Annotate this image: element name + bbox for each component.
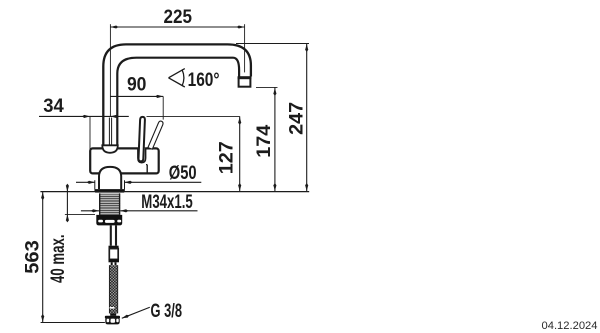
- braid hose left edge: [108, 265, 110, 313]
- inner riser lines inside pipe: [108, 118, 110, 145]
- countertop reference line: [40, 191, 309, 193]
- svg-text:40 max.: 40 max.: [48, 234, 69, 283]
- spout tube outer contour: [103, 44, 251, 146]
- braid highlight gap: [110, 307, 115, 309]
- handle top reference line: [147, 115, 240, 117]
- hose end stub: [110, 313, 116, 315]
- G 3/8 leader: [122, 307, 150, 318]
- angle symbol 160: [169, 69, 185, 87]
- svg-text:34: 34: [43, 96, 64, 117]
- handle lever vertical position: [139, 117, 145, 161]
- svg-text:M34x1.5: M34x1.5: [141, 192, 193, 213]
- braided flex hose: [109, 265, 118, 313]
- hose crimp ferrule: [109, 246, 119, 249]
- dim 40 max outside arrows: [66, 185, 68, 221]
- svg-text:90: 90: [127, 75, 147, 96]
- dim 34: [39, 115, 129, 117]
- dim M34x1.5: [81, 210, 99, 212]
- shank right edge: [119, 193, 121, 215]
- dim 127: [239, 116, 241, 191]
- shank left edge: [99, 193, 101, 215]
- mounting nut: [96, 215, 122, 226]
- svg-text:G 3/8: G 3/8: [151, 301, 183, 322]
- threaded shank: [99, 193, 120, 215]
- dim 90: [110, 95, 163, 97]
- hose neck piece: [111, 262, 113, 265]
- escutcheon flange: [95, 189, 125, 192]
- dim 563: [42, 192, 44, 323]
- faucet body: [90, 148, 159, 173]
- spout tube inner contour: [117, 58, 239, 146]
- aerator top seam: [238, 77, 252, 79]
- svg-text:174: 174: [254, 124, 275, 157]
- body base dome and neck: [99, 167, 121, 189]
- lever slot in body: [138, 148, 146, 163]
- hose end extension line: [41, 322, 105, 324]
- dim O50 outside arrows: [76, 181, 95, 183]
- handle lever tilted position: [148, 121, 163, 149]
- svg-text:Ø50: Ø50: [169, 163, 197, 184]
- cartridge step edge: [146, 164, 147, 166]
- pipe socket dome on body top: [102, 145, 118, 153]
- G 3/8 end connector: [105, 316, 120, 319]
- braid hose right edge: [117, 265, 119, 313]
- dim 225: [110, 26, 244, 28]
- svg-text:247: 247: [286, 102, 307, 135]
- aerator at spout end: [239, 77, 251, 87]
- svg-text:225: 225: [164, 7, 193, 28]
- dim 174: [256, 86, 278, 88]
- svg-text:127: 127: [217, 141, 238, 174]
- svg-text:04.12.2024: 04.12.2024: [542, 320, 598, 332]
- svg-text:160°: 160°: [188, 70, 220, 91]
- dim 247: [236, 43, 309, 45]
- svg-text:563: 563: [23, 240, 44, 274]
- supply tube below nut: [110, 225, 112, 245]
